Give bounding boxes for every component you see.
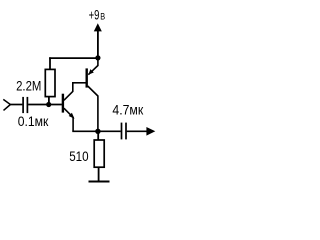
node: base junction dot: [46, 102, 51, 107]
input terminal chevron: [3, 99, 10, 110]
svg-text:0.1мк: 0.1мк: [18, 113, 49, 129]
wire: Q1 emitter down to bottom rail: [72, 117, 74, 131]
resistor 2.2M: [45, 69, 55, 96]
transistor Q2 (PNP) base bar: [85, 68, 87, 87]
label +9V: [89, 7, 106, 23]
wire: input to C1: [10, 104, 22, 106]
transistor Q1 emitter lead with NPN arrow: [64, 108, 73, 117]
node: rail junction dot: [95, 55, 100, 60]
node: output junction dot: [95, 129, 100, 134]
resistor 510: [94, 140, 104, 167]
capacitor C1 0.1uF plates: [22, 97, 24, 113]
wire: C2 to output arrow: [127, 130, 148, 132]
svg-text:510: 510: [69, 148, 89, 164]
transistor Q2 emitter lead with PNP arrow: [88, 58, 98, 75]
wire: C1 to Q1 base: [28, 104, 62, 106]
wire: output node down to R2: [97, 131, 99, 140]
wire: rail down to R1 top: [49, 57, 51, 69]
transistor Q2 collector lead: [88, 86, 98, 131]
ground: [89, 181, 110, 183]
wire: R2 bottom to ground: [98, 167, 100, 181]
wire: supply arrow to top rail: [97, 31, 99, 59]
transistor Q1 collector lead: [64, 83, 73, 101]
power arrow (+9V supply): [94, 23, 102, 31]
wire: bottom rail: [72, 130, 120, 132]
wire: top rail: [49, 57, 98, 59]
wire: R1 bottom to base node: [48, 97, 50, 105]
svg-text:2.2M: 2.2M: [16, 78, 41, 94]
transistor Q1 (NPN) base bar: [62, 94, 64, 113]
svg-text:+9: +9: [89, 7, 100, 23]
output terminal arrow: [146, 127, 155, 136]
svg-text:4.7мк: 4.7мк: [112, 102, 144, 118]
wire: Q1 collector to Q2 base: [72, 82, 86, 84]
svg-text:В: В: [100, 12, 105, 22]
capacitor C2 4.7uF plates: [121, 123, 123, 140]
